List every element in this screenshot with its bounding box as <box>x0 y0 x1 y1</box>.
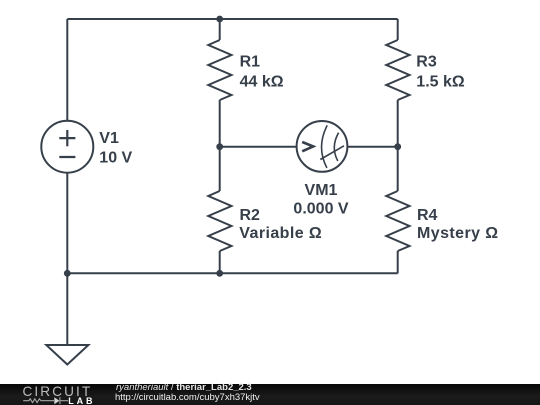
voltmeter VM1 <box>297 121 348 172</box>
CircuitLab logo <box>0 384 110 405</box>
footer credit line <box>116 383 252 393</box>
footer url line <box>115 393 260 403</box>
node dot top R1 <box>216 16 223 23</box>
resistor R1 <box>208 40 231 100</box>
svg-text:VM1: VM1 <box>305 182 338 199</box>
resistor R4 <box>386 191 409 251</box>
node dot bottom R2 <box>216 270 223 277</box>
wire ground lead <box>66 273 68 345</box>
wire VM1 left lead <box>220 146 297 148</box>
svg-text:R3: R3 <box>416 54 437 71</box>
wire VM1 right lead <box>347 146 397 148</box>
wire R3 bottom lead <box>397 100 399 147</box>
resistor R2 <box>208 191 231 251</box>
svg-text:Variable Ω: Variable Ω <box>239 225 322 242</box>
wire R4 top lead <box>397 147 399 191</box>
wire top rail <box>67 18 397 20</box>
svg-text:R4: R4 <box>417 207 438 224</box>
wire R1 top lead <box>219 19 221 40</box>
wire bottom rail <box>67 272 397 274</box>
svg-text:1.5 kΩ: 1.5 kΩ <box>416 73 465 90</box>
voltage source V1 <box>41 121 93 173</box>
svg-text:Mystery Ω: Mystery Ω <box>417 225 499 242</box>
footer bar <box>0 384 540 405</box>
ground <box>46 345 88 365</box>
svg-text:V1: V1 <box>99 130 119 147</box>
resistor R3 <box>386 40 409 100</box>
wire R1 bottom lead <box>219 100 221 147</box>
svg-text:44 kΩ: 44 kΩ <box>240 73 284 90</box>
node dot mid right <box>394 143 401 150</box>
node dot bottom ground <box>64 270 71 277</box>
wire R3 top lead <box>397 19 399 40</box>
wire left column (V1 top lead) <box>66 19 68 121</box>
wire R2 top lead <box>219 147 221 191</box>
svg-text:LAB: LAB <box>68 396 95 405</box>
wire left column (V1 bottom lead) <box>66 173 68 274</box>
node dot mid left <box>216 143 223 150</box>
wire R4 bottom lead <box>397 251 399 273</box>
svg-text:0.000 V: 0.000 V <box>293 200 348 217</box>
wire R2 bottom lead <box>219 251 221 273</box>
svg-text:R2: R2 <box>240 207 261 224</box>
svg-text:R1: R1 <box>240 54 261 71</box>
svg-text:10 V: 10 V <box>99 150 132 167</box>
